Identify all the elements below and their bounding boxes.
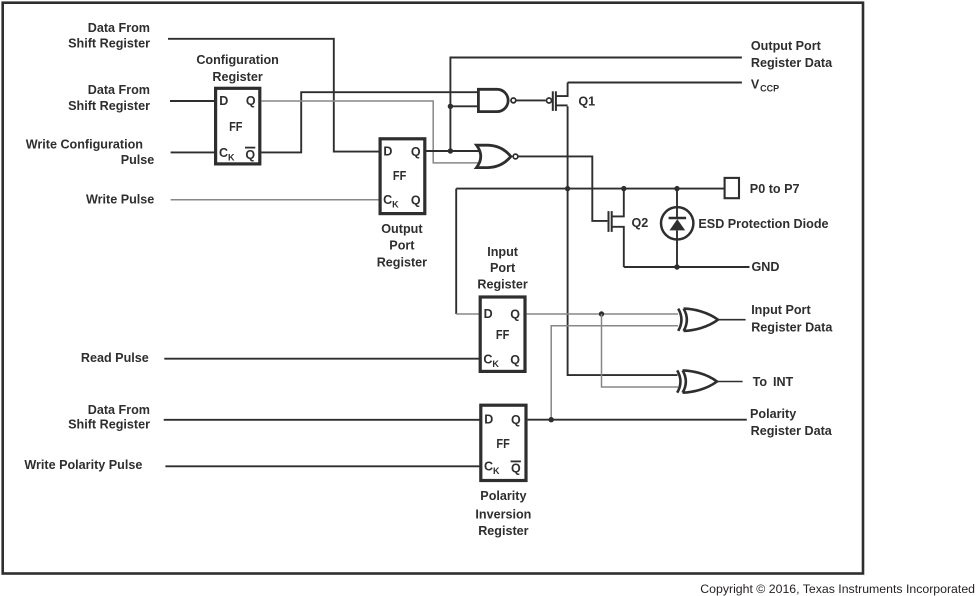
wire VCCP [568, 82, 742, 84]
node Output Port Register Data label [751, 39, 833, 70]
svg-text:K: K [392, 200, 399, 210]
svg-text:C: C [483, 353, 492, 367]
wire GND [624, 266, 750, 268]
flip-flop U3 Input Port Register [477, 245, 527, 371]
svg-text:Output: Output [381, 222, 423, 236]
svg-text:Q1: Q1 [578, 95, 595, 109]
svg-text:Write Polarity Pulse: Write Polarity Pulse [24, 458, 142, 472]
node junction ESD top [674, 186, 679, 191]
flip-flop U1 Configuration Register [196, 53, 279, 164]
svg-text:Register Data: Register Data [751, 321, 833, 335]
svg-text:K: K [493, 466, 500, 476]
wire polarity feedback to XOR1 bottom input [551, 326, 678, 420]
wire config Q to NOR bottom input [261, 101, 479, 163]
NAND gate G1 [478, 89, 515, 111]
wire [170, 100, 216, 102]
svg-text:Output Port: Output Port [751, 39, 822, 53]
svg-text:Pulse: Pulse [121, 153, 155, 167]
wire NAND out to Q1 gate [516, 99, 546, 101]
wire branch to NAND bottom input [450, 105, 478, 107]
svg-text:Input: Input [487, 245, 519, 259]
svg-text:Q: Q [510, 307, 520, 321]
svg-text:To INT: To INT [753, 375, 794, 389]
node junction Q2 drain on pin line [621, 186, 626, 191]
svg-text:Q: Q [511, 462, 521, 476]
svg-text:Polarity: Polarity [750, 407, 796, 421]
flip-flop U2 Output Port Register [377, 139, 427, 270]
wire config Qbar to NAND top input [261, 92, 478, 152]
svg-text:Register Data: Register Data [751, 424, 833, 438]
svg-text:Q: Q [511, 413, 521, 427]
svg-text:CCP: CCP [760, 84, 779, 94]
svg-text:Input Port: Input Port [751, 303, 811, 317]
svg-text:K: K [492, 359, 499, 369]
svg-text:K: K [228, 152, 235, 162]
wire [171, 199, 380, 201]
wire output FF Q to NOR top input [425, 150, 479, 152]
svg-text:Copyright © 2016, Texas Instru: Copyright © 2016, Texas Instruments Inco… [700, 582, 975, 596]
svg-text:D: D [484, 307, 493, 321]
wire XOR2 output [717, 381, 743, 383]
wire feedback down to Input FF D [455, 189, 457, 314]
svg-text:Inversion: Inversion [475, 508, 531, 522]
XOR gate G3 [678, 309, 718, 331]
svg-text:Polarity: Polarity [480, 489, 526, 503]
svg-text:FF: FF [229, 120, 243, 134]
wire branch to XOR2 bottom input [602, 314, 679, 387]
svg-text:D: D [484, 413, 493, 427]
svg-text:Read Pulse: Read Pulse [81, 351, 149, 365]
svg-text:FF: FF [496, 437, 510, 451]
svg-text:Shift Register: Shift Register [68, 37, 150, 51]
XOR gate G4 [677, 370, 717, 392]
svg-text:ESD Protection Diode: ESD Protection Diode [698, 217, 828, 231]
svg-text:GND: GND [752, 260, 780, 274]
svg-text:D: D [383, 145, 392, 159]
svg-text:Data From: Data From [88, 83, 150, 97]
wire P0-P7 line [456, 188, 724, 190]
svg-text:Write Pulse: Write Pulse [86, 193, 154, 207]
wire [165, 465, 480, 467]
wire [168, 39, 379, 152]
wire Q1 source down to pin net and XOR2 top input [568, 106, 678, 375]
diode D1 ESD protection [661, 189, 829, 267]
wire [164, 419, 481, 421]
transistor Q1 (PMOS) [547, 83, 596, 111]
node Data From Shift Register (config D) [68, 83, 150, 113]
svg-text:Port: Port [389, 239, 415, 253]
svg-text:Register Data: Register Data [751, 56, 833, 70]
wire [164, 358, 480, 360]
svg-text:D: D [219, 94, 228, 108]
node junction Q1 source on pin line [565, 186, 570, 191]
node junction [448, 148, 453, 153]
wire Polarity FF Q output to Polarity Register Data [528, 419, 747, 421]
svg-text:Q2: Q2 [632, 216, 649, 230]
node junction ESD bottom [674, 264, 679, 269]
flip-flop U4 Polarity Inversion Register [475, 405, 531, 538]
transistor Q2 (NMOS) [609, 189, 649, 267]
node Polarity Register Data label [750, 407, 833, 438]
svg-text:Register: Register [478, 524, 528, 538]
svg-text:Register: Register [377, 255, 427, 269]
node Data From Shift Register (polarity D) [68, 403, 150, 432]
svg-text:P0 to P7: P0 to P7 [750, 182, 800, 196]
wire D stub [456, 313, 480, 315]
svg-text:Q: Q [510, 353, 520, 367]
node junction on polarity Q [549, 417, 554, 422]
svg-text:C: C [484, 460, 493, 474]
svg-text:Data From: Data From [88, 403, 150, 417]
svg-text:Port: Port [490, 261, 516, 275]
svg-text:V: V [751, 77, 760, 91]
svg-text:FF: FF [496, 328, 510, 342]
wire Input FF Q to XOR1 top input [527, 313, 678, 315]
svg-text:FF: FF [393, 169, 407, 183]
wire Q net up to Output Port Register Data [450, 58, 742, 152]
svg-text:C: C [383, 193, 392, 207]
svg-text:Q: Q [245, 148, 255, 162]
svg-text:Write Configuration: Write Configuration [26, 138, 143, 152]
svg-text:Register: Register [212, 70, 262, 84]
wire XOR1 output [718, 319, 746, 321]
node junction on input Q [599, 311, 604, 316]
svg-text:Data From: Data From [88, 21, 150, 35]
wire NOR out to Q2 gate [518, 156, 607, 221]
NOR gate G2 [477, 145, 518, 167]
svg-text:Shift Register: Shift Register [68, 418, 150, 432]
node VCCP label [751, 77, 779, 93]
pad P0 to P7 [725, 178, 800, 198]
svg-text:Q: Q [411, 193, 421, 207]
svg-text:Shift Register: Shift Register [68, 99, 150, 113]
wire [171, 151, 216, 153]
svg-text:Q: Q [246, 94, 256, 108]
svg-text:Configuration: Configuration [196, 53, 279, 67]
node junction [448, 104, 453, 109]
svg-text:Register: Register [477, 277, 527, 291]
svg-text:Q: Q [411, 145, 421, 159]
node Data From Shift Register (top) [68, 21, 150, 51]
node Write Configuration Pulse [26, 138, 155, 168]
svg-text:C: C [219, 146, 228, 160]
node Input Port Register Data label [751, 303, 833, 335]
